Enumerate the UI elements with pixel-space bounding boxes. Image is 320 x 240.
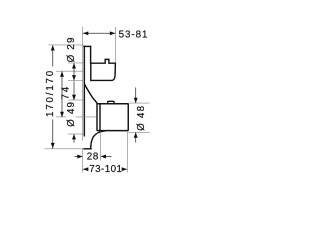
svg-text:28: 28 [87, 151, 99, 162]
wall-plate slab (side profile) [84, 46, 91, 149]
dimension 170/170 (plate height) [45, 45, 85, 149]
dimension 53-81 (top depth) [83, 27, 149, 63]
front reference extension line [82, 27, 84, 141]
svg-text:Ø 49: Ø 49 [66, 101, 77, 127]
dome transition (upper curve) [84, 84, 97, 104]
svg-text:Ø 29: Ø 29 [66, 36, 77, 62]
thermostat knob (upper handle) [91, 59, 116, 80]
dimension 73-101 (bottom depth) [83, 131, 128, 175]
volume handle cylinder (lower, Ø48) [97, 101, 128, 130]
dimension 74 (handle centre distance) [56, 71, 97, 117]
svg-text:74: 74 [60, 85, 71, 100]
svg-text:53-81: 53-81 [119, 30, 149, 41]
dimension Ø48 (cylinder diameter) [128, 88, 149, 143]
dimension 28 (plate depth) [75, 132, 112, 163]
dimension Ø49 (collar diameter) [66, 81, 84, 143]
svg-text:170/170: 170/170 [45, 69, 56, 117]
dimension Ø29 (knob diameter) [66, 36, 84, 80]
dome transition (lower curve) [91, 131, 106, 149]
svg-text:73-101: 73-101 [89, 164, 122, 175]
svg-text:Ø 48: Ø 48 [136, 105, 147, 131]
